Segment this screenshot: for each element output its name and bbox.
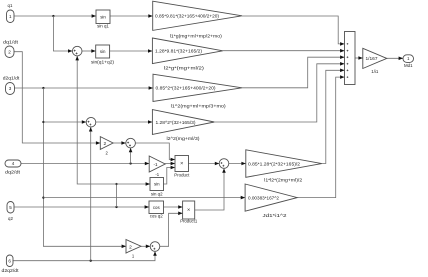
svg-text:dq2/dt: dq2/dt <box>5 170 21 175</box>
svg-text:1/i1: 1/i1 <box>371 69 379 74</box>
svg-text:0.00383*167^2: 0.00383*167^2 <box>248 195 279 200</box>
svg-text:Md1: Md1 <box>404 63 413 68</box>
svg-text:l1*g(mg+ml+mp/2+mo): l1*g(mg+ml+mp/2+mo) <box>170 34 223 39</box>
svg-text:3: 3 <box>9 86 12 91</box>
svg-text:×: × <box>180 161 183 167</box>
svg-text:1.28*9.81*(32+165/2): 1.28*9.81*(32+165/2) <box>155 49 202 54</box>
svg-text:6: 6 <box>8 258 11 263</box>
svg-text:Product: Product <box>174 172 190 177</box>
svg-text:sin: sin <box>100 14 106 19</box>
svg-text:Product1: Product1 <box>180 219 198 224</box>
svg-text:-1: -1 <box>155 172 159 177</box>
svg-text:d2q2/dt: d2q2/dt <box>2 268 20 273</box>
svg-text:sin q1: sin q1 <box>97 24 109 29</box>
svg-text:0.85*1.28*(2*32+165)/2: 0.85*1.28*(2*32+165)/2 <box>248 161 300 166</box>
svg-text:4: 4 <box>12 161 15 166</box>
svg-text:1/167: 1/167 <box>366 56 378 61</box>
svg-text:l1^2(mg+ml+mp/3+mo): l1^2(mg+ml+mp/3+mo) <box>171 103 227 108</box>
svg-text:1: 1 <box>9 14 12 19</box>
svg-text:sin(q1+q2): sin(q1+q2) <box>91 59 115 64</box>
svg-text:×: × <box>187 208 190 214</box>
svg-text:q2: q2 <box>8 216 13 221</box>
svg-text:5: 5 <box>9 205 12 210</box>
svg-text:sin: sin <box>100 49 106 54</box>
svg-text:1.28^2*(32+165/3): 1.28^2*(32+165/3) <box>156 120 196 125</box>
svg-text:2: 2 <box>129 244 132 250</box>
svg-text:sin: sin <box>154 182 160 187</box>
svg-text:-1: -1 <box>153 162 158 167</box>
svg-text:2: 2 <box>8 49 11 54</box>
svg-text:l2^2(mg+ml/3): l2^2(mg+ml/3) <box>167 136 201 141</box>
svg-text:cos: cos <box>153 205 161 210</box>
svg-text:d2q1/dt: d2q1/dt <box>3 76 20 81</box>
svg-text:2: 2 <box>103 141 106 147</box>
svg-text:l1*l2*(2mg+ml)/2: l1*l2*(2mg+ml)/2 <box>264 177 303 182</box>
svg-text:q1: q1 <box>8 3 13 8</box>
svg-text:cos q2: cos q2 <box>150 213 163 218</box>
svg-text:dq1/dt: dq1/dt <box>3 40 19 45</box>
svg-text:Jd1*i1^2: Jd1*i1^2 <box>263 213 288 218</box>
svg-text:sin q2: sin q2 <box>151 191 163 196</box>
svg-text:0.85^2*(32+165+400/2+20): 0.85^2*(32+165+400/2+20) <box>156 86 216 91</box>
svg-text:0.85*9.81*(32+165+400/2+20): 0.85*9.81*(32+165+400/2+20) <box>155 14 219 19</box>
svg-text:l2*g*(mg+ml/2): l2*g*(mg+ml/2) <box>164 66 205 71</box>
